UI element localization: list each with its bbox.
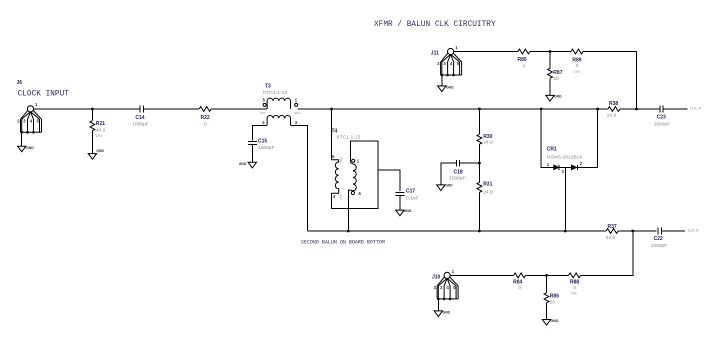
svg-text:24.9: 24.9 (483, 189, 493, 195)
ground (C15) (239, 162, 257, 168)
svg-text:4: 4 (262, 120, 265, 125)
wire C14 to R22 (143, 108, 199, 110)
svg-text:GND: GND (96, 149, 104, 153)
wire C22 to CLK_N stub (662, 230, 686, 232)
svg-text:1: 1 (547, 162, 550, 167)
resistor R22 (199, 107, 211, 128)
svg-text:R22: R22 (201, 115, 210, 121)
svg-text:C23: C23 (657, 115, 666, 121)
resistor R85 (518, 49, 530, 69)
junction CR1 pin2 on main rail (596, 108, 599, 111)
T3 primary winding (267, 98, 290, 109)
svg-text:2: 2 (580, 161, 583, 166)
svg-text:24.9: 24.9 (607, 112, 617, 118)
svg-text:PRI: PRI (261, 111, 266, 115)
svg-text:GND: GND (445, 184, 453, 188)
svg-text:5: 5 (332, 154, 335, 159)
CR1 pin2 wire to main rail (577, 109, 597, 167)
ground (R86) (542, 319, 558, 325)
wire R85 to R89 (530, 51, 571, 53)
svg-text:GND: GND (446, 85, 454, 89)
ground (J6) (18, 132, 35, 152)
diode pair CR1 (541, 109, 598, 174)
T4 pin 6 circle (351, 191, 354, 194)
svg-text:1: 1 (452, 269, 455, 274)
svg-text:1: 1 (357, 159, 360, 164)
T3 secondary winding (267, 115, 290, 125)
ground (R21) (88, 149, 104, 159)
resistor R89 (571, 49, 583, 74)
junction R21 tap (91, 108, 94, 111)
svg-text:C18: C18 (454, 169, 463, 175)
T4 pin 1 circle (352, 159, 355, 162)
svg-text:1000pF: 1000pF (654, 122, 671, 128)
resistor R30 (477, 134, 493, 146)
svg-text:J10: J10 (432, 274, 441, 280)
svg-text:0: 0 (576, 63, 579, 69)
wire CR1 pin3 to bottom rail (564, 167, 566, 231)
svg-text:GND: GND (239, 162, 247, 166)
svg-text:1000pF: 1000pF (449, 176, 466, 182)
svg-text:24.9: 24.9 (606, 235, 616, 241)
svg-text:4: 4 (333, 194, 336, 199)
capacitor C18 (441, 160, 480, 185)
wire T4 tap to C17 (378, 170, 400, 191)
svg-text:R30: R30 (483, 134, 492, 140)
wire T3 pin4 to C15 (252, 125, 267, 140)
T4 primary winding (right) (348, 163, 356, 191)
CR1 diode D2 (571, 165, 577, 170)
svg-text:C22: C22 (654, 236, 663, 242)
svg-text:PRI: PRI (339, 194, 343, 199)
svg-text:3: 3 (23, 118, 26, 123)
svg-text:C17: C17 (406, 189, 415, 195)
wire R38 to C23 (620, 108, 660, 110)
junction T4 pin6 at bottom rail (347, 230, 350, 233)
junction C18 tap (478, 162, 481, 165)
svg-text:DNI: DNI (96, 134, 102, 138)
svg-text:0: 0 (523, 63, 526, 69)
svg-text:J6: J6 (17, 80, 23, 86)
svg-text:C14: C14 (135, 115, 144, 121)
ground (J10) (434, 299, 450, 317)
svg-text:50: 50 (550, 300, 556, 306)
svg-text:HSMS-2812BLK: HSMS-2812BLK (547, 155, 584, 161)
resistor R38 (607, 101, 620, 118)
wire T4 pin6 down to bottom rail (347, 190, 349, 231)
wire R22 to T3 (211, 108, 267, 110)
svg-text:R37: R37 (608, 224, 617, 230)
svg-text:50: 50 (553, 76, 559, 82)
resistor R86 (544, 275, 559, 319)
ground (C18) (437, 184, 453, 191)
capacitor C23 (654, 106, 671, 128)
T3 pin 1 circle (295, 103, 298, 106)
svg-text:0: 0 (204, 122, 207, 128)
svg-text:R31: R31 (483, 181, 492, 187)
junction T4 tap on main rail (330, 108, 333, 111)
junction R86 tap (545, 274, 548, 277)
svg-text:49.9: 49.9 (96, 127, 106, 133)
svg-text:6: 6 (359, 191, 362, 196)
junction CR1 pin3 at bottom rail (564, 230, 567, 233)
resistor R87 (548, 52, 563, 96)
svg-text:R87: R87 (553, 70, 562, 76)
junction top branch on main rail (635, 108, 638, 111)
svg-text:GND: GND (26, 146, 34, 150)
svg-text:R86: R86 (550, 294, 559, 300)
svg-text:T4: T4 (332, 128, 338, 134)
wire R31 to bottom rail (478, 192, 480, 231)
svg-text:0: 0 (573, 285, 576, 291)
svg-text:R85: R85 (518, 57, 527, 63)
svg-text:GND: GND (443, 310, 451, 314)
svg-text:DNI: DNI (573, 70, 579, 74)
resistor R84 (513, 273, 526, 291)
svg-text:R89: R89 (572, 57, 581, 63)
wire J6 pin1 to C14 (34, 108, 140, 110)
svg-text:4: 4 (447, 285, 450, 290)
svg-text:1000pF: 1000pF (132, 122, 149, 128)
svg-text:CR1: CR1 (547, 147, 557, 153)
wire T4 pin1 up over to tap column (332, 141, 378, 208)
svg-text:0.1uF: 0.1uF (406, 196, 419, 202)
wire R30 to R31 (478, 144, 480, 182)
capacitor C14 (132, 106, 149, 128)
svg-text:CLK_N: CLK_N (688, 230, 699, 234)
svg-text:3: 3 (562, 169, 565, 174)
svg-text:1: 1 (35, 102, 38, 107)
svg-text:3: 3 (443, 61, 446, 66)
svg-text:C15: C15 (258, 139, 267, 145)
junction CR1 pin1 on main rail (540, 108, 543, 111)
svg-text:5: 5 (263, 98, 266, 103)
ground (C17) (396, 209, 412, 216)
resistor R31 (477, 181, 493, 195)
wire J11 pin1 to R85 (454, 51, 518, 53)
svg-text:3: 3 (295, 120, 298, 125)
capacitor C15 (248, 139, 275, 163)
svg-text:R84: R84 (513, 279, 522, 285)
svg-text:R88: R88 (570, 279, 579, 285)
svg-text:SECOND BALUN ON BOARD BOTTOM: SECOND BALUN ON BOARD BOTTOM (301, 240, 385, 246)
svg-text:3: 3 (440, 285, 443, 290)
connector J11 (431, 45, 462, 76)
svg-text:GND: GND (404, 209, 412, 213)
CR1 diode D1 (554, 165, 559, 170)
resistor R37 (606, 224, 619, 241)
svg-text:T3: T3 (265, 84, 271, 90)
svg-text:4: 4 (450, 61, 453, 66)
svg-text:1000pF: 1000pF (258, 145, 275, 151)
svg-text:24.9: 24.9 (483, 140, 493, 146)
svg-text:2: 2 (434, 285, 437, 290)
wire C23 to CLK_P stub (663, 108, 687, 110)
wire J10 pin1 to R84 (450, 274, 513, 276)
bottom rail wire (308, 230, 606, 232)
wire main rail down to T4 pin 5 (331, 109, 333, 160)
wire main rail down to R30 (478, 109, 480, 134)
ground (J11) (438, 75, 454, 92)
capacitor C17 (395, 189, 418, 211)
wire R37 to C22 (618, 230, 657, 232)
svg-text:KTC1-1-13: KTC1-1-13 (337, 134, 361, 140)
junction R31 at bottom rail (478, 230, 481, 233)
svg-text:1: 1 (455, 45, 458, 50)
transformer T4 (332, 128, 362, 199)
CR1 pin1 wire from main rail (541, 109, 553, 167)
svg-text:XFMR / BALUN CLK CIRCUITRY: XFMR / BALUN CLK CIRCUITRY (374, 21, 496, 29)
svg-text:SEC: SEC (294, 111, 301, 115)
svg-text:CLOCK INPUT: CLOCK INPUT (18, 91, 70, 99)
svg-text:R38: R38 (609, 101, 618, 107)
junction R87 tap (549, 50, 552, 53)
wire R88 to bottom rail junction (581, 231, 633, 275)
svg-text:J11: J11 (431, 51, 439, 57)
svg-text:R21: R21 (96, 121, 105, 127)
svg-text:SEC: SEC (339, 156, 343, 163)
resistor R21 (90, 109, 106, 154)
svg-text:1000pF: 1000pF (651, 243, 668, 249)
wire T3 pin1 to R38 (main rail) (298, 108, 608, 110)
wire R84 to R88 (526, 274, 569, 276)
svg-text:0: 0 (518, 285, 521, 291)
svg-text:2: 2 (437, 61, 440, 66)
capacitor C22 (651, 228, 668, 249)
svg-text:CLK_P: CLK_P (690, 108, 701, 112)
T4 secondary winding (left) (332, 160, 339, 193)
resistor R88 (569, 273, 581, 296)
svg-text:1: 1 (295, 98, 298, 103)
connector J10 (432, 269, 458, 300)
svg-text:DNI: DNI (571, 292, 577, 296)
T3 pin 5 circle (263, 103, 266, 106)
svg-text:2: 2 (17, 118, 20, 123)
wire R89 to main rail junction (583, 52, 637, 110)
ground (R87) (546, 94, 562, 101)
svg-text:GND: GND (554, 94, 562, 98)
CR1 mid wire (559, 166, 571, 168)
junction R30 column on main rail (478, 108, 481, 111)
transformer T3 (261, 84, 302, 126)
svg-text:4: 4 (30, 118, 33, 123)
connector J6 (17, 80, 42, 134)
junction bottom branch on bottom rail (631, 230, 634, 233)
svg-text:GND: GND (551, 319, 559, 323)
svg-text:KTC1-1-13: KTC1-1-13 (263, 90, 287, 96)
wire T3 pin3 down to bottom rail (291, 125, 308, 231)
